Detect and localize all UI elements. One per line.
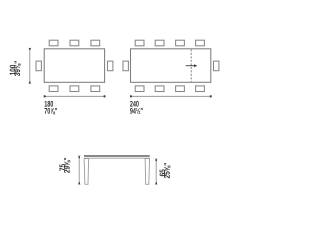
table A top view (180x100) <box>44 49 104 83</box>
dimension line A height <box>28 48 31 84</box>
extension dashed line <box>190 49 192 82</box>
elevation tabletop <box>84 156 150 159</box>
chair B bottom 4 <box>196 86 205 92</box>
chair B right <box>214 61 219 71</box>
label 240 <box>130 101 139 107</box>
dimension line B width <box>130 95 212 98</box>
chair B bottom 2 <box>155 86 164 92</box>
label 75 <box>59 164 65 171</box>
label 94 1/2 inch <box>130 108 143 114</box>
chair B top 3 <box>176 40 185 46</box>
table B top view (240x100) <box>131 49 211 83</box>
label 65 <box>160 169 166 176</box>
chair A bottom 1 <box>49 86 58 92</box>
label 29 5/8 inch <box>64 158 70 173</box>
label 25 5/8 inch <box>164 163 170 178</box>
chair B top 2 <box>155 40 164 46</box>
chair B bottom 1 <box>135 86 144 92</box>
dimension line A width <box>44 95 106 98</box>
dimension line height 75 <box>78 156 81 185</box>
chair A top 3 <box>91 40 100 46</box>
chair B top 4 <box>196 40 205 46</box>
chair A bottom 3 <box>91 86 100 92</box>
label 39 3/8 inch <box>14 61 20 76</box>
chair A bottom 2 <box>70 86 79 92</box>
extension arrow <box>186 64 198 67</box>
elevation right leg <box>145 159 149 185</box>
chair A right <box>108 61 113 71</box>
dimension line height 65 <box>155 159 158 185</box>
chair B bottom 3 <box>176 86 185 92</box>
chair B left <box>123 61 128 71</box>
chair A left <box>36 61 41 71</box>
elevation left leg <box>84 159 88 185</box>
label 180 <box>45 101 53 107</box>
chair B top 1 <box>135 40 144 46</box>
label 70 7/8 inch <box>45 108 58 114</box>
chair A top 1 <box>49 40 58 46</box>
label 100 <box>10 65 16 75</box>
chair A top 2 <box>70 40 79 46</box>
